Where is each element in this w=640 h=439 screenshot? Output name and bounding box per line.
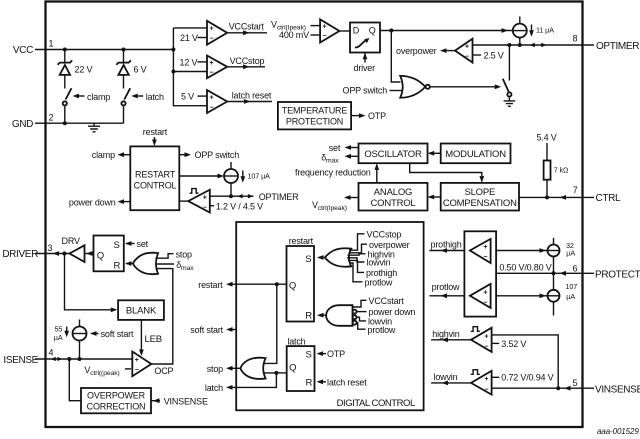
OR gate driver reset [133, 253, 158, 274]
wire VCCstop input [349, 234, 365, 250]
junction dot GND-clamp [63, 121, 67, 125]
current source 107uA [224, 162, 238, 196]
svg-text:CONTROL: CONTROL [370, 198, 415, 209]
hysteresis symbol 1.2/4.5 [190, 189, 199, 194]
wire DRIVER line [35, 253, 70, 255]
wire latch Q out [263, 372, 287, 374]
svg-text:stop: stop [207, 364, 223, 374]
wire prothigh input [348, 260, 364, 272]
svg-text:+: + [484, 333, 488, 340]
wire protlow out [429, 295, 464, 297]
svg-text:−: − [135, 367, 139, 374]
wire latch reset output [227, 101, 272, 103]
svg-text:lowvin: lowvin [434, 372, 458, 382]
zener diode 6V [116, 50, 131, 89]
svg-text:stop: stop [176, 249, 192, 259]
arrow ISENSE left [51, 357, 56, 361]
comparator 1.2V/4.5V [188, 190, 210, 213]
wire protlow input [349, 263, 363, 282]
junction dot Q branch [389, 29, 393, 33]
svg-text:µA: µA [566, 292, 575, 301]
wire VINSENSE line [492, 387, 594, 389]
current source 11uA [513, 17, 527, 46]
wire OCP input from below [151, 269, 173, 364]
wire prothigh out [429, 250, 464, 252]
wire Q output to current source [380, 30, 513, 32]
wire VCC rail [35, 49, 173, 51]
flip-flop driver SR [94, 236, 124, 272]
comparator OCP [132, 352, 151, 377]
svg-text:OSCILLATOR: OSCILLATOR [364, 149, 422, 160]
junction dot on DRIVER line [63, 252, 67, 256]
wire comparator output to restart control [179, 200, 188, 202]
wire stop input [156, 254, 174, 259]
svg-text:VCC: VCC [13, 45, 33, 56]
svg-text:driver: driver [354, 63, 376, 73]
svg-text:µA: µA [566, 248, 575, 257]
junction dot VINSENSE [556, 386, 560, 390]
arrow OPTIMER right [541, 43, 546, 47]
svg-text:R: R [114, 260, 121, 271]
svg-text:soft start: soft start [101, 329, 134, 339]
resistor 7k [544, 161, 551, 180]
arrow OPTIMER tag left [237, 194, 242, 198]
junction dot VCC-diode2 [122, 48, 126, 52]
arrow driver up into flip-flop [364, 54, 366, 63]
svg-text:+: + [210, 25, 214, 32]
wire lowvin AND input [357, 317, 366, 321]
svg-text:−: − [210, 104, 214, 111]
block SLOPE COMPENSATION [441, 183, 519, 211]
wire overpower input [349, 244, 368, 253]
svg-text:1: 1 [49, 39, 54, 49]
svg-text:11 µA: 11 µA [536, 25, 554, 34]
svg-text:6 V: 6 V [134, 65, 147, 75]
block TEMPERATURE PROTECTION [278, 102, 351, 129]
wire latch Q down to latch out [232, 373, 276, 388]
current source 32uA [548, 238, 560, 273]
wire 1.2/4.5 comparator plus input [210, 195, 231, 197]
svg-text:protlow: protlow [368, 325, 396, 335]
arrow DRIVER out [53, 251, 60, 256]
current source 55uA [73, 320, 87, 360]
svg-text:Q: Q [369, 26, 376, 36]
wire LEB [140, 320, 142, 355]
svg-text:S: S [114, 240, 120, 251]
junction dot ISENSE branch to OPC [67, 357, 71, 361]
svg-text:+: + [465, 43, 469, 50]
svg-text:5 V: 5 V [181, 92, 194, 102]
svg-text:4: 4 [49, 348, 54, 358]
svg-text:RESTART: RESTART [135, 170, 176, 180]
wire clamp output [121, 154, 130, 156]
svg-text:clamp: clamp [87, 92, 110, 102]
wire Vctrl(Ipeak) output of analog control [347, 197, 359, 199]
ground symbol OPP switch [504, 97, 516, 107]
junction dot PROTECT [552, 271, 556, 275]
wire Vctrl to comparator [311, 25, 321, 27]
svg-text:GND: GND [12, 119, 33, 130]
wire restart Q down to stop OR [264, 284, 277, 363]
svg-text:VCCstart: VCCstart [229, 22, 265, 32]
svg-text:overpower: overpower [369, 240, 410, 250]
svg-text:5: 5 [573, 378, 578, 388]
svg-text:latch: latch [205, 383, 223, 393]
svg-text:OTP: OTP [327, 349, 345, 359]
svg-text:3.52 V: 3.52 V [501, 339, 526, 349]
junction dot restart Q [275, 282, 279, 286]
wire OTP output [351, 115, 362, 117]
svg-text:protlow: protlow [365, 277, 393, 287]
svg-text:22 V: 22 V [75, 65, 93, 75]
svg-text:MODULATION: MODULATION [445, 149, 506, 160]
wire CTRL line [519, 196, 594, 198]
svg-text:restart: restart [289, 236, 314, 246]
flip-flop driver D/Q [350, 23, 380, 53]
wire analog to oscillator frequency reduction [376, 165, 378, 183]
svg-text:107: 107 [566, 282, 578, 291]
svg-text:ANALOG: ANALOG [374, 187, 412, 198]
wire Q branch down to NOR [391, 31, 400, 83]
svg-text:clamp: clamp [92, 150, 115, 160]
junction dot OPTIMER mid [229, 194, 233, 198]
svg-text:OCP: OCP [154, 366, 173, 376]
svg-text:DIGITAL CONTROL: DIGITAL CONTROL [337, 398, 415, 409]
wire resistor to CTRL line [546, 180, 548, 198]
svg-text:400 mV: 400 mV [279, 30, 309, 40]
wire lowvin out [431, 382, 471, 384]
wire stop OR output [232, 367, 241, 369]
label 2.5 V [473, 54, 482, 56]
svg-text:TEMPERATURE: TEMPERATURE [282, 106, 348, 116]
ground symbol left [88, 123, 100, 132]
svg-text:8: 8 [573, 34, 578, 44]
wire OPTIMER tag line [231, 195, 254, 197]
svg-text:latch: latch [146, 92, 164, 102]
svg-text:CORRECTION: CORRECTION [87, 402, 146, 412]
junction dot current source on OPTIMER line [518, 43, 522, 47]
wire DRV branch down to BLANK [65, 254, 117, 310]
junction dot VCC-diode1 [63, 48, 67, 52]
arrow latch [134, 95, 143, 97]
wire VCCstart output [227, 32, 267, 34]
arrow OPTIMER left [530, 43, 535, 47]
flip-flop restart [287, 246, 315, 322]
svg-text:overpower: overpower [396, 46, 437, 56]
svg-text:R: R [305, 310, 312, 321]
svg-text:0.50 V/0.80 V: 0.50 V/0.80 V [499, 263, 551, 273]
comparator prothigh [470, 239, 491, 263]
AND gate restart reset [326, 305, 352, 326]
svg-text:+: + [210, 95, 214, 102]
wire modulation to oscillator [429, 152, 441, 154]
svg-text:S: S [305, 254, 311, 265]
svg-text:OPTIMER: OPTIMER [596, 41, 639, 52]
wire restart Q out [232, 283, 287, 285]
svg-text:7 kΩ: 7 kΩ [554, 165, 569, 174]
svg-text:−: − [483, 299, 487, 306]
svg-text:VCCstop: VCCstop [230, 56, 265, 66]
wire OPTIMER line [473, 44, 595, 46]
wire lowvin input [347, 258, 365, 262]
wire OR to S restart [319, 257, 326, 259]
svg-text:7: 7 [573, 185, 578, 195]
comparator Vctrl/400mV [320, 19, 339, 42]
block OVERPOWER CORRECTION [81, 388, 151, 413]
svg-text:−: − [322, 33, 326, 40]
junction dot ISENSE 55uA [78, 357, 82, 361]
svg-text:+: + [135, 357, 139, 364]
wire 5.4V to resistor [546, 143, 548, 161]
svg-text:D: D [353, 26, 360, 36]
junction dot VCC-comparator rail [171, 48, 175, 52]
svg-text:VINSENSE: VINSENSE [164, 396, 208, 406]
svg-text:soft start: soft start [190, 325, 223, 335]
buffer DRV [70, 245, 85, 262]
wire OTP into S latch [318, 353, 326, 355]
svg-text:+: + [203, 194, 207, 201]
wire slope to analog [429, 196, 441, 198]
hysteresis symbol highvin [471, 327, 480, 332]
svg-text:highvin: highvin [432, 329, 459, 339]
svg-text:OPP switch: OPP switch [195, 150, 240, 160]
wire set output [347, 147, 359, 149]
wire VCC comparator rail vertical [173, 28, 207, 106]
svg-text:latch reset: latch reset [232, 90, 272, 100]
block prot comparators [464, 231, 496, 316]
svg-text:OPP switch: OPP switch [343, 86, 388, 96]
svg-text:Q: Q [97, 250, 104, 261]
wire prothigh comparator to 32uA [496, 250, 547, 252]
wire AND to R restart [319, 314, 327, 316]
wire OPTIMER down to switch [508, 45, 510, 81]
comparator latch reset 5V [207, 90, 227, 113]
block MODULATION [441, 144, 511, 164]
block DIGITAL CONTROL outer [236, 222, 423, 410]
wire latch reset into R latch [318, 381, 326, 383]
comparator VCCstop 12V [207, 56, 227, 79]
svg-text:frequency reduction: frequency reduction [295, 168, 371, 178]
svg-text:0.72 V/0.94 V: 0.72 V/0.94 V [501, 373, 553, 383]
hysteresis symbol lowvin [471, 370, 480, 375]
OR gate stop [241, 358, 266, 379]
block RESTART CONTROL [130, 146, 179, 210]
svg-text:prothigh: prothigh [431, 239, 462, 249]
wire VCCstart input [353, 300, 367, 307]
switch clamp [63, 88, 72, 123]
svg-text:power down: power down [69, 197, 116, 207]
svg-text:Q: Q [289, 280, 296, 291]
wire restart control to 107uA source [179, 175, 221, 177]
svg-text:DRIVER: DRIVER [2, 249, 38, 260]
wire delta max input [157, 263, 174, 265]
svg-text:LEB: LEB [145, 334, 162, 345]
current source 107uA protect [548, 273, 560, 315]
svg-text:+: + [483, 289, 487, 296]
wire set into S [126, 243, 135, 245]
svg-text:protlow: protlow [432, 282, 460, 292]
wire NOR output to switch [430, 86, 497, 88]
svg-text:5.4 V: 5.4 V [537, 133, 557, 143]
svg-text:2.5 V: 2.5 V [484, 50, 504, 60]
svg-text:VCCstop: VCCstop [367, 229, 402, 239]
svg-text:+: + [322, 23, 326, 30]
junction dot switch branch on OPTIMER line [507, 43, 511, 47]
wire delta max output [347, 155, 359, 157]
svg-text:CTRL: CTRL [596, 193, 622, 204]
svg-text:−: − [210, 36, 214, 43]
NOR gate OPP [400, 76, 430, 98]
wire highvin input [348, 254, 366, 255]
wire PROTECT line [496, 272, 594, 274]
svg-text:−: − [465, 53, 469, 60]
svg-text:ISENSE: ISENSE [3, 355, 38, 366]
svg-text:set: set [137, 239, 149, 249]
svg-text:PROTECTION: PROTECTION [286, 117, 343, 127]
svg-text:DRV: DRV [62, 236, 80, 246]
svg-text:2: 2 [49, 113, 54, 123]
svg-text:aaa-001529: aaa-001529 [597, 427, 639, 436]
svg-text:SLOPE: SLOPE [464, 187, 495, 198]
svg-text:power down: power down [369, 307, 416, 317]
wire ISENSE branch down to overpower correction [69, 359, 81, 401]
switch OPP to ground [503, 79, 512, 97]
arrow CTRL into chip [560, 195, 567, 200]
svg-text:−: − [484, 386, 488, 393]
arrow PROTECT into chip [560, 271, 567, 276]
svg-text:1.2 V / 4.5 V: 1.2 V / 4.5 V [216, 201, 263, 211]
svg-text:−: − [203, 204, 207, 211]
arrow VINSENSE into chip [564, 386, 571, 391]
wire GND rail [35, 122, 124, 124]
OR gate restart set [325, 248, 351, 266]
junction dot resistor CTRL [545, 195, 549, 199]
svg-text:latch reset: latch reset [327, 377, 367, 387]
svg-text:107 µA: 107 µA [248, 172, 271, 181]
svg-text:Q: Q [289, 363, 296, 374]
svg-text:+: + [210, 60, 214, 67]
arrow ISENSE right [57, 357, 62, 361]
comparator overpower 2.5V [455, 39, 473, 63]
wire highvin out [431, 339, 471, 341]
wire protlow AND input [357, 323, 366, 330]
block OSCILLATOR [359, 144, 428, 164]
wire soft start out [232, 329, 236, 331]
comparator highvin [471, 328, 492, 352]
label 11 uA with arrow [531, 25, 533, 36]
svg-text:21 V: 21 V [180, 33, 198, 43]
svg-text:−: − [484, 343, 488, 350]
wire OPP switch to NOR [390, 90, 402, 92]
label 1.2 V / 4.5 V [210, 205, 214, 207]
junction dot latch Q [274, 371, 278, 375]
arrow OPTIMER tag right [248, 194, 253, 198]
wire 400mV to comparator [311, 34, 321, 36]
svg-text:R: R [306, 377, 313, 388]
wire flip-flop Q to DRV [85, 253, 94, 255]
wire VINSENSE into overpower correction [151, 400, 160, 402]
wire overpower output [444, 50, 455, 52]
svg-text:−: − [210, 70, 214, 77]
svg-text:OVERPOWER: OVERPOWER [87, 391, 146, 401]
svg-text:VCCstart: VCCstart [369, 296, 405, 306]
svg-text:COMPENSATION: COMPENSATION [443, 198, 517, 209]
svg-text:VINSENSE: VINSENSE [595, 384, 640, 395]
wire protlow comparator to 107uA [496, 295, 547, 297]
svg-text:restart: restart [198, 280, 223, 290]
svg-text:S: S [306, 350, 312, 361]
svg-text:CONTROL: CONTROL [134, 181, 177, 191]
switch latch [121, 88, 130, 123]
bubble power down [353, 310, 357, 314]
flip-flop latch [287, 346, 315, 391]
bubble protlow [353, 321, 357, 325]
svg-text:BLANK: BLANK [126, 306, 157, 317]
comparator lowvin [471, 371, 492, 395]
svg-text:set: set [329, 143, 341, 153]
wire power down input [357, 311, 367, 313]
comparator protlow [470, 284, 491, 308]
svg-text:12 V: 12 V [180, 57, 198, 67]
bubble lowvin [353, 315, 357, 319]
wire comparator to D input [339, 30, 350, 32]
svg-text:lowvin: lowvin [367, 258, 391, 268]
comparator VCCstart 21V [207, 21, 227, 45]
wire soft start into 55uA [91, 333, 99, 335]
block BLANK [118, 300, 164, 320]
arrow clamp [76, 95, 85, 97]
label 107 uA with arrow [242, 171, 244, 182]
wire OPP switch output [179, 154, 187, 156]
svg-text:µA: µA [54, 333, 63, 342]
wire ISENSE line [35, 358, 132, 360]
wire highvin plus to VINSENSE [492, 335, 559, 388]
wire power down output [121, 201, 130, 203]
wire OR to R [126, 263, 133, 265]
arrow restart into restart control [153, 137, 155, 145]
zener diode 22V [58, 50, 73, 89]
junction dot rail-VCCstop [171, 70, 175, 74]
svg-text:OPTIMER: OPTIMER [259, 192, 299, 202]
svg-text:latch: latch [287, 336, 305, 346]
svg-text:PROTECT: PROTECT [595, 269, 640, 280]
wire VCCstop output [227, 66, 265, 68]
svg-text:+: + [483, 244, 487, 251]
svg-text:6: 6 [573, 264, 578, 274]
svg-text:+: + [484, 376, 488, 383]
label 3.52 V [492, 342, 500, 344]
svg-text:3: 3 [48, 243, 53, 253]
svg-text:OTP: OTP [368, 111, 386, 121]
svg-text:restart: restart [143, 127, 168, 137]
svg-text:−: − [483, 254, 487, 261]
label 0.72V/0.94V [492, 376, 500, 378]
block ANALOG CONTROL [359, 183, 428, 211]
wire oscillator to slope compensation [410, 163, 482, 181]
